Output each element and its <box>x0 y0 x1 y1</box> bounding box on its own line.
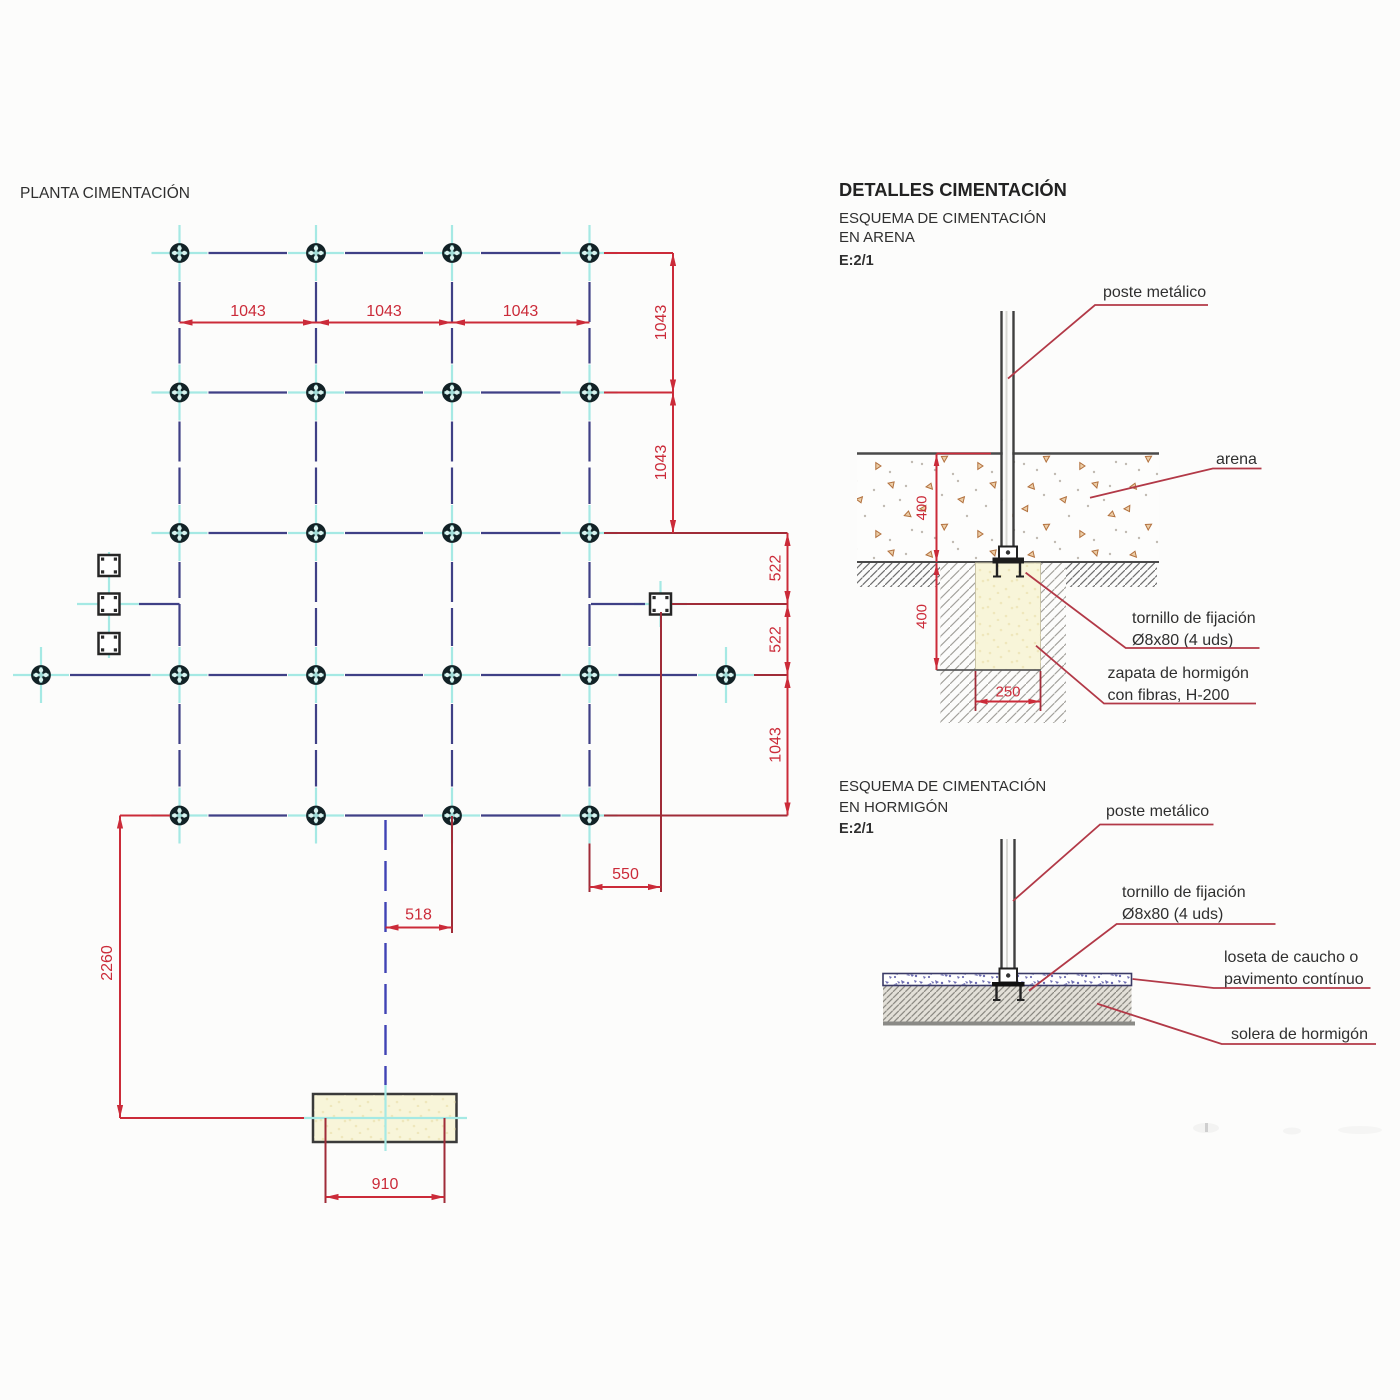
svg-text:522: 522 <box>768 555 785 582</box>
crosshair axes of grid points <box>13 225 754 844</box>
svg-text:Ø8x80 (4 uds): Ø8x80 (4 uds) <box>1132 632 1233 649</box>
label tornillo de fijacion detail 1 <box>1026 573 1260 649</box>
svg-text:Ø8x80 (4 uds): Ø8x80 (4 uds) <box>1122 906 1223 923</box>
footing centre crosshair <box>304 1085 467 1151</box>
svg-text:522: 522 <box>768 626 785 653</box>
dim 250 (zapata width) <box>976 671 1041 711</box>
svg-text:1043: 1043 <box>653 305 670 341</box>
svg-text:con fibras, H-200: con fibras, H-200 <box>1108 687 1230 704</box>
anchor plate squares (left trio) <box>99 555 120 654</box>
svg-text:PLANTA CIMENTACIÓN: PLANTA CIMENTACIÓN <box>20 185 190 202</box>
svg-text:EN HORMIGÓN: EN HORMIGÓN <box>839 799 948 816</box>
concrete footing (zapata) <box>976 563 1041 670</box>
base plate detail 1 <box>993 547 1025 564</box>
anchor bolts detail 1 <box>993 564 1024 577</box>
base plate detail 2 <box>992 969 1025 987</box>
svg-text:250: 250 <box>995 684 1020 701</box>
tee connector to left anchors <box>139 603 180 605</box>
svg-text:400: 400 <box>914 604 931 629</box>
svg-text:1043: 1043 <box>653 445 670 481</box>
grid centrelines vertical <box>180 282 590 787</box>
svg-text:zapata de hormigón: zapata de hormigón <box>1108 665 1249 682</box>
svg-text:tornillo de fijación: tornillo de fijación <box>1122 884 1246 901</box>
svg-text:pavimento contínuo: pavimento contínuo <box>1224 971 1364 988</box>
ground hatch band right <box>1066 563 1157 587</box>
anchor bolts detail 2 <box>993 987 1025 1001</box>
vertical dim 522/522/1043 at x=787.5 <box>768 533 791 816</box>
svg-text:1043: 1043 <box>230 303 266 320</box>
svg-text:solera de hormigón: solera de hormigón <box>1231 1026 1368 1043</box>
anchor plate square (right) <box>650 594 671 615</box>
svg-text:arena: arena <box>1216 451 1257 468</box>
label solera de hormigon <box>1097 1004 1376 1044</box>
side anchor axis (right) <box>634 581 687 627</box>
dim 910 <box>326 1118 445 1203</box>
label loseta de caucho <box>1133 949 1371 988</box>
svg-text:poste metálico: poste metálico <box>1106 803 1209 820</box>
svg-text:ESQUEMA DE CIMENTACIÓN: ESQUEMA DE CIMENTACIÓN <box>839 210 1046 227</box>
svg-text:E:2/1: E:2/1 <box>839 253 874 269</box>
excavation pit hatch <box>940 563 1066 723</box>
svg-text:910: 910 <box>372 1176 399 1193</box>
footing block <box>313 1094 457 1142</box>
metal post detail 2 <box>1002 839 1015 969</box>
dim 400 lower (zapata depth) <box>914 563 940 670</box>
svg-text:poste metálico: poste metálico <box>1103 284 1206 301</box>
extension lines to right vertical dim <box>604 253 788 816</box>
dashed footing axis below grid <box>384 820 386 1085</box>
tee connector to right anchor <box>591 603 645 605</box>
label tornillo de fijacion detail 2 <box>1029 884 1276 991</box>
ground hatch band left <box>857 563 940 587</box>
svg-text:400: 400 <box>914 495 931 520</box>
zapata bottom edge <box>937 669 1042 671</box>
dim 400 upper (sand depth) <box>914 454 992 563</box>
dim 518 <box>386 816 453 933</box>
label poste metalico detail 1 <box>1008 284 1208 379</box>
svg-text:loseta de caucho o: loseta de caucho o <box>1224 949 1358 966</box>
grid centrelines horizontal <box>70 253 697 816</box>
svg-text:E:2/1: E:2/1 <box>839 821 874 837</box>
svg-text:2260: 2260 <box>99 945 116 981</box>
vertical dim 1043x2 at x=673 <box>653 253 676 533</box>
concrete slab (solera) <box>883 986 1135 1024</box>
sand surface line <box>857 452 1159 455</box>
faint print artifacts bottom right <box>1193 1123 1382 1135</box>
svg-text:ESQUEMA DE CIMENTACIÓN: ESQUEMA DE CIMENTACIÓN <box>839 778 1046 795</box>
label poste metalico detail 2 <box>1013 803 1214 901</box>
dimension chain 1043x3 horizontal <box>180 303 590 326</box>
svg-text:1043: 1043 <box>503 303 539 320</box>
svg-text:518: 518 <box>405 907 432 924</box>
dim 550 <box>590 612 662 892</box>
svg-text:1043: 1043 <box>366 303 402 320</box>
dim 2260 <box>99 816 304 1119</box>
svg-text:550: 550 <box>612 866 639 883</box>
label arena <box>1090 451 1262 498</box>
svg-text:DETALLES CIMENTACIÓN: DETALLES CIMENTACIÓN <box>839 179 1067 200</box>
metal post detail 1 <box>1002 311 1014 546</box>
svg-text:1043: 1043 <box>768 727 785 763</box>
svg-text:tornillo de fijación: tornillo de fijación <box>1132 610 1256 627</box>
foundation grid points <box>32 244 735 824</box>
label zapata de hormigon <box>1036 646 1256 704</box>
sand layer with texture <box>857 455 1159 562</box>
side anchor axes (left trio) <box>77 552 139 658</box>
svg-text:EN ARENA: EN ARENA <box>839 229 915 246</box>
ground level line <box>857 561 1159 563</box>
rubber tile layer (loseta) <box>883 974 1132 986</box>
